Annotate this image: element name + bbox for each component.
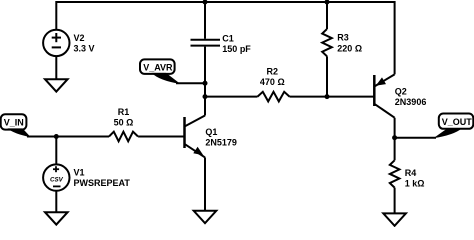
junction dot R2/R3/Q2 base <box>325 94 330 99</box>
wire node to R2 <box>205 96 258 98</box>
node label V_IN <box>1 114 31 137</box>
wire Q1 emitter to ground <box>204 157 206 210</box>
svg-text:Q1: Q1 <box>205 127 217 137</box>
svg-text:R4: R4 <box>405 168 417 178</box>
label R4 1 kohm <box>405 168 425 189</box>
svg-text:Q2: Q2 <box>395 86 407 96</box>
junction dot V1 top <box>54 134 59 139</box>
label R3 220 ohm <box>337 33 362 54</box>
wire V_IN to R1 <box>27 136 109 138</box>
svg-text:R1: R1 <box>118 107 130 117</box>
resistor R3 <box>322 29 332 56</box>
svg-text:470 Ω: 470 Ω <box>260 77 285 87</box>
capacitor C1 <box>191 40 221 46</box>
svg-text:V_OUT: V_OUT <box>442 117 473 127</box>
svg-text:220 Ω: 220 Ω <box>337 43 362 53</box>
ground below V2 <box>45 79 68 91</box>
svg-text:V1: V1 <box>74 167 85 177</box>
junction dot R2 node <box>203 94 208 99</box>
wire R1 to Q1 base <box>138 136 184 138</box>
wire top rail from V2 to Q2 emitter <box>56 2 394 74</box>
wire C1 top stub <box>204 2 206 39</box>
svg-text:50 Ω: 50 Ω <box>114 118 134 128</box>
wire V_IN junction to V1 top <box>55 137 57 165</box>
voltage source V2 <box>43 30 69 56</box>
wire R4 to ground <box>394 188 396 214</box>
node label V_OUT <box>434 114 474 139</box>
ground below R4 <box>383 213 406 225</box>
resistor R4 <box>390 160 400 187</box>
junction dot V_OUT node <box>392 135 397 140</box>
wire V_AVR tail to node <box>176 82 205 84</box>
junction dot top rail / C1 <box>203 0 208 5</box>
ground below Q1 <box>194 211 217 223</box>
transistor Q1 2N5179 <box>185 116 206 158</box>
label V1 PWSREPEAT <box>74 167 131 188</box>
svg-text:1 kΩ: 1 kΩ <box>405 179 425 189</box>
svg-text:R3: R3 <box>337 33 349 43</box>
junction dot V_AVR node <box>203 81 208 86</box>
label Q1 2N5179 <box>205 127 237 148</box>
wire R2 to Q2 base <box>290 96 375 98</box>
svg-text:V2: V2 <box>74 33 85 43</box>
svg-text:2N3906: 2N3906 <box>395 97 427 107</box>
wire R3 top stub <box>326 2 328 29</box>
svg-text:2N5179: 2N5179 <box>205 137 237 147</box>
resistor R1 <box>109 132 138 142</box>
transistor Q2 2N3906 <box>374 74 394 117</box>
label Q2 2N3906 <box>395 86 427 107</box>
ground below V1 <box>45 212 68 224</box>
svg-text:CSV: CSV <box>50 177 64 184</box>
label R2 470 ohm <box>260 67 285 88</box>
wire R3 bottom to base line <box>326 56 328 96</box>
svg-text:R2: R2 <box>267 67 279 77</box>
wire V1 to ground <box>55 191 57 212</box>
node label V_AVR <box>140 59 181 84</box>
svg-text:150 pF: 150 pF <box>222 44 251 54</box>
svg-text:V_AVR: V_AVR <box>143 63 173 73</box>
wire V2 to ground <box>55 56 57 79</box>
svg-text:C1: C1 <box>222 34 234 44</box>
junction dot top rail / R3 <box>325 0 330 5</box>
resistor R2 <box>258 92 290 102</box>
svg-text:3.3 V: 3.3 V <box>74 44 95 54</box>
wire Q2 collector to R4 <box>394 118 396 161</box>
label R1 50 ohm <box>114 107 134 128</box>
svg-text:PWSREPEAT: PWSREPEAT <box>74 178 131 188</box>
svg-text:V_IN: V_IN <box>4 118 24 128</box>
voltage source V1 <box>43 164 69 190</box>
label V2 3.3 V <box>74 33 95 54</box>
wire node to V_OUT label <box>395 137 436 139</box>
label C1 150 pF <box>222 34 251 54</box>
wire C1 bottom to Q1 collector <box>204 47 206 116</box>
